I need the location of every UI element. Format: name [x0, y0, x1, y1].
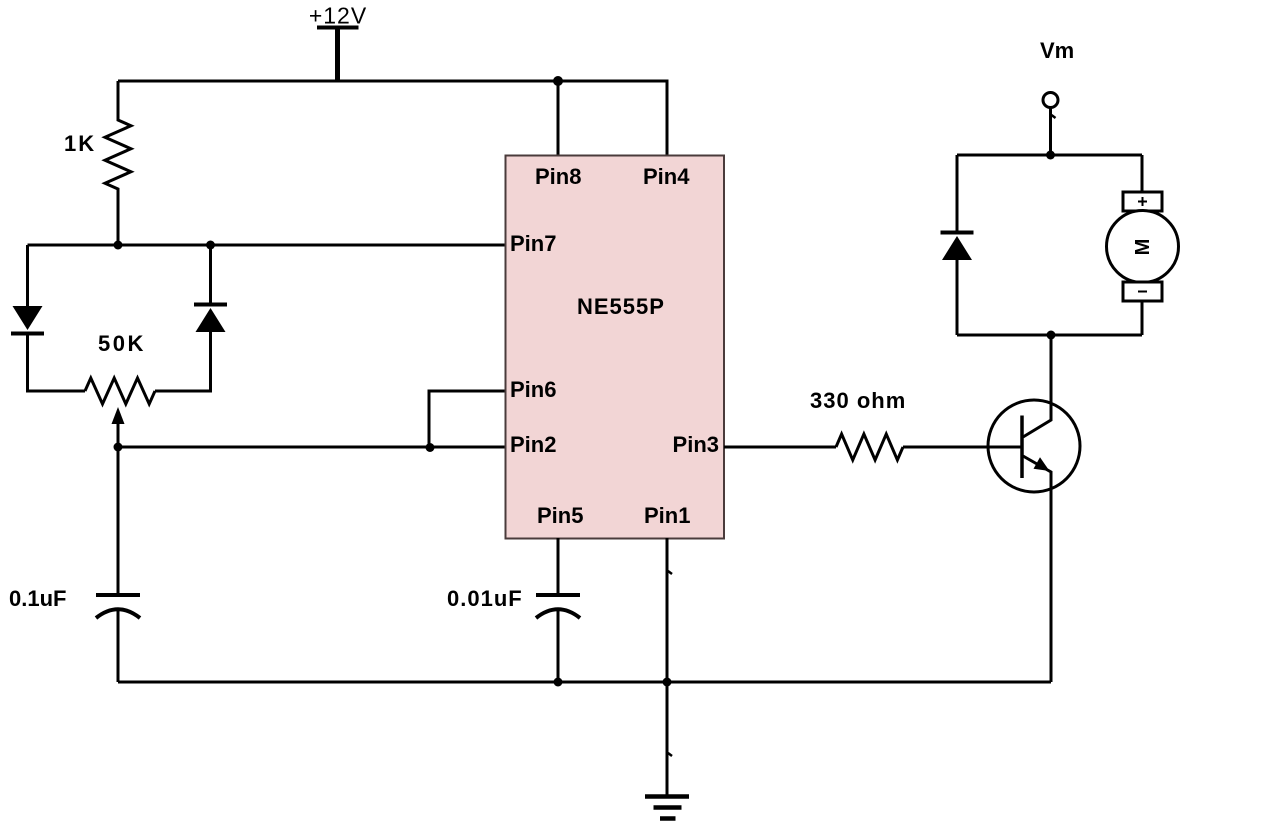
transistor Q1 collector: [1023, 335, 1051, 437]
transistor Q1 emitter arrow: [1034, 457, 1050, 471]
svg-text:Pin6: Pin6: [510, 377, 556, 402]
resistor R3 330 ohm zigzag: [836, 434, 903, 460]
ground symbol bar 1: [645, 794, 689, 799]
wire Pin7 horizontal: [28, 244, 506, 247]
diode D1 triangle (pointing down): [13, 306, 43, 330]
transistor Q1 base bar: [1020, 416, 1024, 479]
wire pot right to diode D2: [155, 332, 211, 391]
svg-text:Vm: Vm: [1040, 38, 1074, 63]
wire Pin3 horizontal: [724, 446, 836, 449]
wire wiper down to Pin2 node: [117, 423, 120, 447]
wire Pin1 down to ground: [666, 538, 669, 796]
svg-text:Pin4: Pin4: [643, 164, 690, 189]
potentiometer R2 50K zigzag: [85, 378, 155, 404]
pin end tick above ground: [668, 753, 672, 756]
potentiometer wiper arrow: [112, 407, 125, 424]
node junction dot C2 / rail: [554, 678, 563, 687]
wire D2 top to Pin7 wire: [209, 245, 212, 305]
wire Pin5 down: [557, 538, 560, 595]
diode D2 triangle (pointing up): [196, 308, 226, 332]
svg-text:1K: 1K: [64, 131, 96, 156]
node junction dot Vm / loop: [1046, 151, 1055, 160]
motor M1 bottom brush box: [1123, 282, 1162, 301]
node junction dot on Pin7 wire: [206, 241, 215, 250]
wire left branch down to diode D1: [26, 245, 29, 307]
diode D1 cathode bar: [11, 332, 44, 336]
pin end tick on Pin1 wire: [668, 571, 672, 574]
wire Pin2 horizontal: [118, 446, 505, 449]
wire top rail to Pin4: [118, 81, 667, 157]
node dot wiper / Pin2 / C1: [114, 443, 123, 452]
wire Pin6 branch: [429, 391, 505, 447]
ground symbol bar 3: [660, 816, 676, 821]
wire D1 to potentiometer: [28, 334, 86, 391]
svg-text:M: M: [1132, 239, 1154, 256]
motor M1 body circle: [1107, 211, 1179, 283]
svg-text:Pin1: Pin1: [644, 503, 690, 528]
svg-text:0.1uF: 0.1uF: [9, 586, 66, 611]
diode D3 cathode bar: [941, 231, 974, 235]
svg-text:Pin2: Pin2: [510, 432, 556, 457]
ground symbol bar 2: [654, 805, 682, 810]
transistor Q1 circle: [988, 400, 1080, 492]
transistor Q1 emitter: [1023, 456, 1051, 682]
wire C1 bottom lead: [117, 609, 120, 682]
motor M1 top brush box: [1123, 192, 1162, 211]
node junction dot collector / loop: [1047, 331, 1056, 340]
terminal Vm circle: [1043, 93, 1058, 108]
wire flyback diode top lead: [956, 155, 959, 232]
svg-text:330 ohm: 330 ohm: [810, 388, 906, 413]
capacitor C2 0.01uF top plate: [536, 593, 580, 597]
node junction dot Pin1 / rail: [663, 678, 672, 687]
wire top loop rail: [957, 154, 1142, 157]
wire motor bottom lead: [1141, 301, 1144, 335]
capacitor C1 0.1uF top plate: [96, 593, 140, 597]
power +12V stem wire: [335, 28, 340, 82]
svg-text:50K: 50K: [98, 331, 146, 356]
node dot at 1K bottom: [114, 241, 123, 250]
motor minus sign: [1138, 291, 1147, 293]
svg-text:NE555P: NE555P: [577, 294, 665, 319]
svg-text:Pin5: Pin5: [537, 503, 583, 528]
wire Vm stub: [1049, 108, 1052, 155]
node junction dot top rail / Pin8: [553, 76, 563, 86]
chip U1 NE555P body: [506, 156, 725, 539]
wire resistor to transistor base: [903, 446, 1022, 449]
diode D3 triangle (pointing up): [942, 236, 972, 260]
wire Pin8: [557, 81, 560, 157]
svg-text:+12V: +12V: [309, 3, 367, 29]
wire bottom ground rail: [118, 681, 1051, 684]
resistor R1 1K with leads: [105, 81, 131, 245]
diode D2 cathode bar: [194, 303, 227, 307]
node junction dot Pin6 branch: [426, 443, 435, 452]
wire C2 bottom lead: [557, 609, 560, 682]
svg-text:Pin7: Pin7: [510, 231, 556, 256]
capacitor C2 0.01uF curved plate: [536, 609, 580, 618]
wire motor top lead: [1141, 155, 1144, 192]
wire bottom loop rail: [957, 334, 1142, 337]
svg-text:Pin3: Pin3: [673, 432, 719, 457]
motor plus sign: [1138, 197, 1147, 206]
wire C1 top lead: [117, 447, 120, 595]
wire flyback diode bottom lead: [956, 260, 959, 335]
svg-text:Pin8: Pin8: [535, 164, 581, 189]
power +12V bar: [317, 26, 359, 30]
svg-text:0.01uF: 0.01uF: [447, 586, 523, 611]
pin end tick on Vm stub: [1052, 115, 1056, 118]
capacitor C1 0.1uF curved plate: [96, 609, 140, 618]
